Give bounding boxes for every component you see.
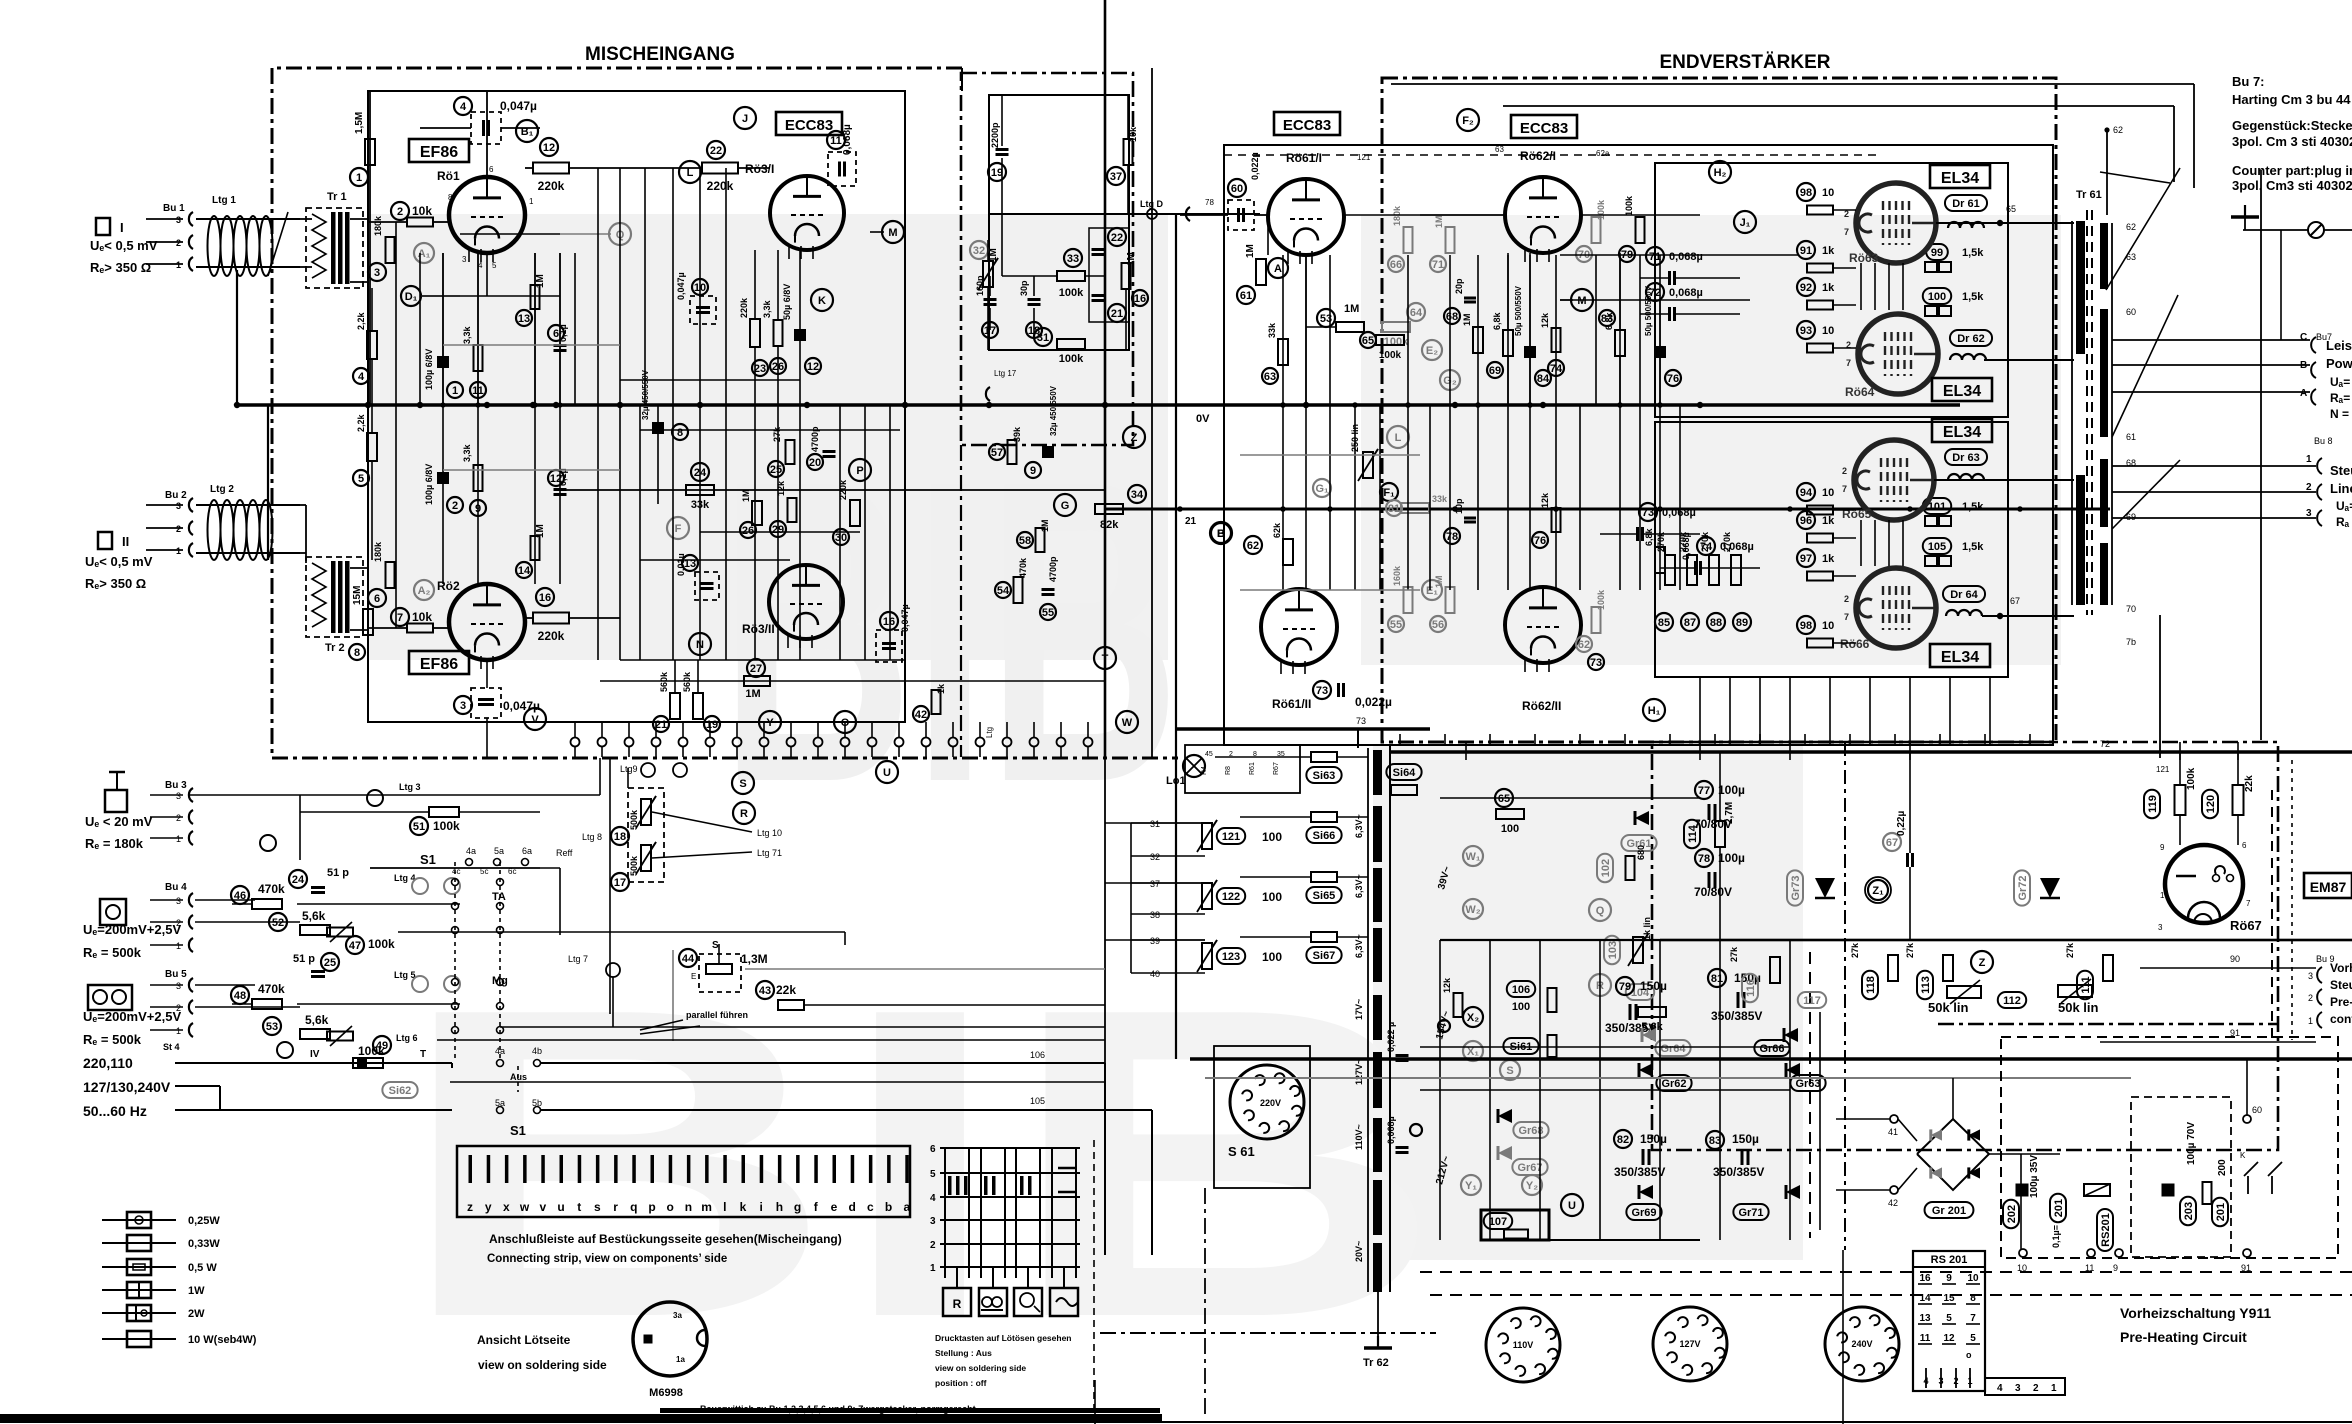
cap 0,068u (72): [1646, 283, 1664, 301]
svg-text:F₂: F₂: [1462, 115, 1474, 127]
circle Y2: [1522, 1175, 1542, 1195]
dash-dot frame middle network: [961, 73, 1133, 445]
svg-text:68: 68: [1446, 311, 1458, 323]
wire grid left of tubes: [395, 222, 397, 628]
svg-text:3: 3: [462, 255, 467, 264]
resistor 12k (76) lower: [1552, 508, 1561, 532]
svg-text:Stellung : Aus: Stellung : Aus: [935, 1348, 992, 1358]
svg-text:IV: IV: [310, 1049, 320, 1060]
resistor 2,2k upper (4): [367, 331, 377, 359]
svg-text:e: e: [831, 1200, 838, 1214]
svg-text:4: 4: [358, 371, 365, 383]
svg-text:4: 4: [460, 101, 467, 113]
circle U ps: [1561, 1194, 1583, 1216]
svg-text:200: 200: [2217, 1159, 2228, 1176]
svg-text:C: C: [2300, 332, 2307, 343]
resistor 1M (16): [1122, 263, 1131, 289]
push button symbol phono: [1014, 1288, 1042, 1316]
svg-text:32: 32: [1150, 852, 1160, 862]
svg-text:Reff: Reff: [556, 848, 573, 858]
svg-text:22k: 22k: [2244, 775, 2255, 792]
svg-text:U: U: [883, 767, 891, 779]
resistor 1M (58): [1036, 528, 1045, 552]
diode Gr72: [2014, 870, 2030, 905]
svg-text:Y₁: Y₁: [1465, 1180, 1477, 1192]
capacitor 0,1u lower (12): [548, 470, 564, 486]
circle Z ps: [1971, 951, 1993, 973]
svg-text:61: 61: [1240, 290, 1252, 302]
diode Gr62: [1639, 1063, 1653, 1077]
potentiometer 121: [1202, 823, 1212, 849]
cap 100u 70V (203): [2162, 1184, 2175, 1197]
svg-text:1,5k: 1,5k: [1962, 501, 1984, 513]
svg-text:Tr 2: Tr 2: [325, 642, 345, 654]
svg-text:100µ 6/8V: 100µ 6/8V: [424, 464, 434, 505]
wire y1082: [450, 1081, 1105, 1083]
circle W1: [1463, 846, 1483, 866]
svg-text:R: R: [740, 808, 748, 820]
svg-text:81: 81: [1711, 973, 1723, 985]
svg-text:16: 16: [1134, 293, 1146, 305]
svg-text:91: 91: [1800, 245, 1812, 257]
svg-text:7: 7: [1842, 484, 1847, 494]
svg-text:B₁: B₁: [521, 126, 534, 138]
svg-text:92: 92: [1800, 282, 1812, 294]
cap 0,047u dashed (10): [692, 279, 708, 295]
oval 106 + 100: [1507, 981, 1535, 997]
resistor 22k (120): [2202, 790, 2218, 818]
svg-text:1: 1: [2306, 454, 2312, 465]
potentiometer 122: [1202, 883, 1212, 909]
capacitor 0,068u (11): [827, 131, 845, 149]
svg-text:R61: R61: [1249, 762, 1256, 775]
svg-text:118: 118: [1865, 976, 1877, 994]
svg-text:32µ 450/550V: 32µ 450/550V: [1049, 385, 1058, 436]
svg-text:105: 105: [1928, 541, 1946, 553]
svg-text:12k: 12k: [1540, 312, 1550, 328]
fuse Si63: [1311, 752, 1337, 762]
transformer Tr62 winding bars: [1373, 750, 1382, 795]
resistor 1M (61): [1256, 259, 1266, 285]
svg-text:71: 71: [1432, 259, 1444, 271]
svg-text:1M: 1M: [535, 524, 546, 538]
diode Gr71: [1786, 1185, 1800, 1199]
svg-text:73: 73: [1642, 507, 1654, 519]
cap 0,022u input (60): [1228, 179, 1246, 197]
svg-text:16: 16: [539, 592, 551, 604]
circle O: [834, 711, 856, 733]
input symbol II: [98, 532, 112, 549]
svg-text:98: 98: [1800, 187, 1812, 199]
svg-text:96: 96: [1800, 515, 1812, 527]
cap 4700p (20): [807, 454, 823, 470]
svg-text:150µ: 150µ: [1732, 1132, 1759, 1146]
svg-text:470k: 470k: [258, 882, 285, 896]
svg-text:123: 123: [1222, 951, 1240, 963]
svg-text:65: 65: [1498, 793, 1510, 805]
circle W: [1116, 711, 1138, 733]
svg-text:3,3k: 3,3k: [462, 325, 472, 344]
svg-text:78: 78: [1698, 853, 1710, 865]
svg-text:122: 122: [1222, 891, 1240, 903]
svg-text:1,5k: 1,5k: [1962, 541, 1984, 553]
svg-text:270k: 270k: [1656, 531, 1666, 552]
cap 50u 500/550V mid2: [1654, 346, 1666, 358]
junction dots bus21: [1177, 506, 1183, 512]
svg-text:121: 121: [2156, 765, 2170, 774]
cap 150u (79): [1616, 977, 1634, 995]
svg-text:h: h: [776, 1200, 783, 1214]
svg-text:Si62: Si62: [389, 1085, 412, 1097]
svg-text:100µ: 100µ: [1718, 851, 1745, 865]
module shading power supply (pale): [1373, 745, 1803, 1260]
svg-text:105: 105: [1030, 1096, 1045, 1106]
svg-text:B: B: [1217, 528, 1225, 540]
diode Gr61: [1635, 811, 1649, 825]
svg-text:3pol. Cm3 sti 40302: 3pol. Cm3 sti 40302: [2232, 178, 2352, 193]
svg-text:Dr 64: Dr 64: [1950, 589, 1978, 601]
svg-text:Steuer: Steuer: [2330, 463, 2352, 478]
resistor 3,3k Roe2 (9): [474, 465, 483, 491]
svg-text:27k: 27k: [1850, 942, 1860, 958]
svg-text:0,5 W: 0,5 W: [188, 1262, 217, 1274]
svg-text:1: 1: [176, 546, 181, 556]
node B lower-left: [1211, 523, 1231, 543]
svg-text:7: 7: [397, 612, 403, 624]
svg-text:1: 1: [2051, 1383, 2057, 1394]
svg-text:Ltg 1: Ltg 1: [212, 195, 236, 206]
svg-text:Z: Z: [1131, 432, 1138, 444]
svg-text:J: J: [742, 113, 748, 125]
wires heater area: [1105, 822, 1205, 824]
horizontal tie y345 gray: [443, 344, 620, 346]
svg-text:1: 1: [452, 385, 458, 397]
svg-text:10: 10: [1822, 187, 1834, 199]
ground top right: [2244, 205, 2246, 217]
svg-text:1: 1: [176, 260, 181, 270]
svg-text:6a: 6a: [522, 846, 532, 856]
svg-text:82k: 82k: [1100, 519, 1119, 531]
label box EM87: [2304, 873, 2352, 898]
bus line 21: [1105, 508, 2110, 511]
svg-text:12k: 12k: [1540, 492, 1550, 508]
svg-text:6,8k: 6,8k: [1492, 311, 1502, 330]
tube Roe67 (EM87): [2165, 845, 2243, 923]
svg-text:25: 25: [770, 464, 782, 476]
svg-text:60: 60: [1231, 183, 1243, 195]
wire 91: [2100, 1041, 2316, 1043]
resistor 180k (3): [386, 237, 395, 263]
svg-text:21: 21: [1185, 516, 1197, 527]
svg-text:4700p: 4700p: [1048, 556, 1058, 582]
svg-text:120: 120: [2205, 795, 2217, 813]
resistor 470k (54): [1014, 577, 1023, 603]
svg-text:y: y: [485, 1200, 492, 1214]
svg-text:220k: 220k: [739, 297, 749, 318]
svg-text:22: 22: [1111, 232, 1123, 244]
wires to Bu7: [2112, 339, 2310, 341]
circle Y: [759, 711, 781, 733]
svg-text:50k lin: 50k lin: [1928, 1000, 1969, 1015]
resistor 1M (26): [752, 501, 762, 525]
wire under 107: [1481, 1239, 1700, 1241]
svg-text:47: 47: [349, 940, 361, 952]
svg-text:22k: 22k: [776, 983, 796, 997]
svg-text:100µ 6/8V: 100µ 6/8V: [424, 349, 434, 390]
svg-text:M: M: [1577, 295, 1586, 307]
svg-text:18: 18: [614, 831, 626, 843]
svg-text:100k: 100k: [1596, 589, 1606, 610]
svg-text:II: II: [122, 534, 129, 549]
thick bus 72: [1390, 750, 2352, 754]
svg-text:20p: 20p: [1454, 278, 1464, 294]
svg-text:ECC83: ECC83: [1283, 117, 1331, 134]
svg-text:B: B: [2300, 360, 2307, 371]
svg-text:62: 62: [2113, 125, 2123, 135]
wires EM87 area: [2179, 752, 2181, 785]
svg-text:5: 5: [492, 261, 497, 270]
svg-text:n: n: [685, 1200, 692, 1214]
svg-text:position : off: position : off: [935, 1378, 987, 1388]
svg-text:Ltg 7: Ltg 7: [568, 954, 588, 964]
svg-text:Vorhei: Vorhei: [2330, 961, 2352, 975]
svg-text:W₁: W₁: [1466, 851, 1481, 863]
svg-text:E: E: [691, 972, 696, 981]
svg-text:2: 2: [176, 238, 181, 248]
resistor 3,3k (26): [774, 320, 783, 346]
cap 150u (83): [1706, 1131, 1724, 1149]
svg-text:o: o: [1966, 1350, 1972, 1360]
svg-text:9: 9: [1946, 1273, 1952, 1284]
svg-text:2: 2: [2308, 993, 2313, 1003]
svg-text:5: 5: [358, 473, 364, 485]
svg-text:RS 201: RS 201: [1931, 1254, 1968, 1266]
svg-text:u: u: [557, 1200, 564, 1214]
svg-text:38: 38: [1150, 910, 1160, 920]
svg-text:F₁: F₁: [1383, 487, 1395, 499]
cap 0,22u (67): [1883, 833, 1901, 851]
resistor 22k (43): [756, 981, 774, 999]
resistor 5,6k (53): [263, 1017, 281, 1035]
svg-text:ENDVERSTÄRKER: ENDVERSTÄRKER: [1659, 52, 1830, 73]
svg-text:270k: 270k: [1700, 531, 1710, 552]
gray bus: [1205, 1077, 2131, 1079]
wire Ltg D: [989, 213, 1260, 215]
svg-text:Rö2: Rö2: [437, 579, 460, 593]
svg-text:1k: 1k: [1822, 553, 1835, 565]
svg-text:27k: 27k: [1729, 946, 1739, 962]
svg-text:0,068µ: 0,068µ: [1669, 287, 1703, 299]
svg-text:z: z: [467, 1200, 473, 1214]
svg-text:EL34: EL34: [1941, 170, 1979, 187]
svg-text:R8: R8: [1225, 766, 1232, 775]
dashed box 500k pots: [628, 788, 664, 882]
input Bu5 symbol: [88, 985, 132, 1010]
svg-text:Rö63: Rö63: [1849, 251, 1879, 265]
Ltg 10 / Ltg 71 stubs: [652, 812, 752, 832]
svg-text:Gr62: Gr62: [1661, 1078, 1686, 1090]
resistor 6,8k (83): [1615, 330, 1625, 356]
oval 201 + 0,1u: [2050, 1194, 2066, 1222]
wires Tr1 secondary: [350, 218, 368, 220]
svg-text:2: 2: [1953, 1376, 1958, 1386]
svg-text:50µ 6/8V: 50µ 6/8V: [782, 284, 792, 320]
oval 112: [1998, 992, 2026, 1008]
svg-text:L: L: [1395, 432, 1402, 444]
mains wires: [175, 1062, 452, 1064]
svg-text:62: 62: [1578, 639, 1590, 651]
svg-text:160p: 160p: [975, 275, 985, 296]
pot 100k (47): [346, 936, 364, 954]
resistor 100k top mid: [1636, 217, 1645, 243]
svg-text:Ltg 6: Ltg 6: [396, 1033, 418, 1043]
svg-text:33k: 33k: [1267, 322, 1277, 338]
svg-text:RS201: RS201: [2100, 1213, 2112, 1247]
extra junction dots: [440, 402, 445, 407]
svg-text:Uₑ< 0,5 mV: Uₑ< 0,5 mV: [85, 554, 153, 569]
diode Gr68: [1498, 1109, 1512, 1123]
svg-text:Connecting strip, view on com: Connecting strip, view on components’ si…: [487, 1253, 727, 1265]
svg-text:Rö65: Rö65: [1842, 507, 1872, 521]
svg-text:10k: 10k: [412, 204, 432, 218]
circle S ps: [1500, 1060, 1520, 1080]
svg-text:31: 31: [1150, 819, 1160, 829]
svg-text:127V~: 127V~: [1354, 1059, 1364, 1085]
svg-text:Gr64: Gr64: [1660, 1043, 1686, 1055]
svg-text:J₁: J₁: [1740, 217, 1751, 229]
svg-text:Si67: Si67: [1313, 950, 1336, 962]
label box ECC83 left: [776, 112, 842, 135]
circle Y1: [1461, 1175, 1481, 1195]
svg-text:16: 16: [883, 616, 895, 628]
1,5k resistors with ovals: [1926, 244, 1948, 260]
svg-text:25: 25: [324, 957, 336, 969]
label box EF86 upper: [409, 139, 469, 162]
svg-text:70: 70: [2126, 604, 2136, 614]
svg-text:62: 62: [2126, 222, 2136, 232]
svg-text:63: 63: [1495, 145, 1504, 154]
svg-text:44: 44: [682, 953, 695, 965]
svg-text:8: 8: [448, 193, 453, 202]
svg-text:110V~: 110V~: [1354, 1124, 1364, 1150]
svg-text:Uₐ=: Uₐ=: [2336, 499, 2352, 513]
wires Bu3/4/5 to switch: [190, 794, 300, 796]
thick bus 73: [1176, 727, 1430, 731]
svg-text:22: 22: [710, 145, 722, 157]
svg-text:1,5M: 1,5M: [354, 112, 365, 134]
svg-text:2200p: 2200p: [990, 122, 1000, 148]
vertical wires right module: [1282, 405, 1284, 590]
svg-text:121: 121: [1222, 831, 1240, 843]
svg-text:1: 1: [2308, 1016, 2313, 1026]
svg-text:Bu 5: Bu 5: [165, 969, 187, 980]
resistor 200 (201): [2203, 1182, 2212, 1204]
pot 500k upper (18): [641, 799, 651, 825]
pot 500k lower (17): [641, 845, 651, 871]
Tr62 ground: [1377, 1292, 1379, 1340]
cap 32u 450/550V (9): [1042, 446, 1054, 458]
svg-text:Rö3/I: Rö3/I: [745, 162, 774, 176]
rung y560: [640, 559, 790, 561]
resistor 2,2k lower (5): [367, 433, 377, 461]
resistor 10k (7): [391, 608, 409, 626]
solid box EL34 lower pair: [1655, 422, 2008, 677]
resistor 180k (66) gray: [1404, 227, 1413, 253]
node N: [689, 633, 711, 655]
wires EL34 to transformer: [1936, 222, 2074, 224]
svg-text:8: 8: [354, 647, 360, 659]
bridge terminals: [1890, 1115, 1898, 1123]
svg-text:62k: 62k: [1272, 522, 1282, 538]
svg-text:0,068µ: 0,068µ: [1669, 251, 1703, 263]
wire 90: [2140, 967, 2316, 969]
svg-text:10k: 10k: [412, 610, 432, 624]
svg-text:g: g: [794, 1200, 801, 1214]
svg-text:240V: 240V: [1851, 1339, 1872, 1349]
svg-text:110V: 110V: [1513, 1340, 1534, 1350]
svg-text:r: r: [613, 1200, 618, 1214]
svg-text:3: 3: [176, 215, 181, 225]
svg-text:5: 5: [930, 1169, 936, 1180]
resistor 1M screen Roe1 (13): [531, 285, 540, 309]
svg-text:119: 119: [2147, 795, 2159, 813]
svg-text:51 p: 51 p: [327, 867, 349, 879]
svg-text:100: 100: [1501, 823, 1519, 835]
svg-text:E₁: E₁: [1426, 585, 1438, 597]
dash-dot bottom-left of psu: [1100, 1332, 1436, 1334]
horizontal tie y470: [443, 469, 620, 471]
svg-text:4: 4: [1923, 1376, 1928, 1386]
cap 0,068u (74) lower: [1697, 537, 1715, 555]
rung y380: [620, 379, 800, 381]
svg-text:Bu 7:: Bu 7:: [2232, 74, 2265, 89]
resistor 27k (111): [2077, 971, 2093, 999]
svg-text:77: 77: [1698, 785, 1710, 797]
svg-text:Rö62/I: Rö62/I: [1520, 149, 1556, 163]
svg-text:78: 78: [1205, 198, 1214, 207]
svg-text:G: G: [1061, 500, 1070, 512]
svg-text:0,068µ: 0,068µ: [842, 124, 853, 155]
heater pilot lamp Lo1: [1183, 755, 1205, 777]
Tr61 tap jumpers: [2106, 168, 2180, 290]
svg-text:Uₑ< 0,5 mV: Uₑ< 0,5 mV: [90, 238, 158, 253]
svg-text:680: 680: [1636, 845, 1646, 860]
dashed frame relay: [2131, 1097, 2231, 1257]
circle W2: [1463, 899, 1483, 919]
bridge rectifier Gr201: [1917, 1119, 1989, 1190]
svg-text:1M: 1M: [1126, 252, 1137, 266]
resistor 100 (65): [1495, 789, 1513, 807]
dashed pair lines bottom: [1420, 1271, 2352, 1273]
circle Z1: [1868, 880, 1888, 900]
cap 51p (24): [289, 870, 307, 888]
svg-text:i: i: [760, 1200, 763, 1214]
svg-text:100: 100: [1512, 1001, 1530, 1013]
svg-text:6: 6: [2242, 841, 2247, 850]
svg-text:500k: 500k: [629, 809, 639, 830]
resistor 33k (63): [1278, 339, 1288, 365]
heater connector box: [1185, 745, 1300, 793]
svg-text:Ltg 71: Ltg 71: [757, 848, 782, 858]
potentiometer 123: [1202, 943, 1212, 969]
svg-text:EL34: EL34: [1943, 424, 1981, 441]
diode Gr64: [1642, 1028, 1656, 1042]
pot 1k lin (103): [1604, 936, 1620, 964]
svg-text:Gr71: Gr71: [1738, 1207, 1763, 1219]
svg-text:M: M: [888, 227, 897, 239]
ps wiring grid: [1440, 797, 1700, 799]
svg-text:3: 3: [460, 700, 466, 712]
